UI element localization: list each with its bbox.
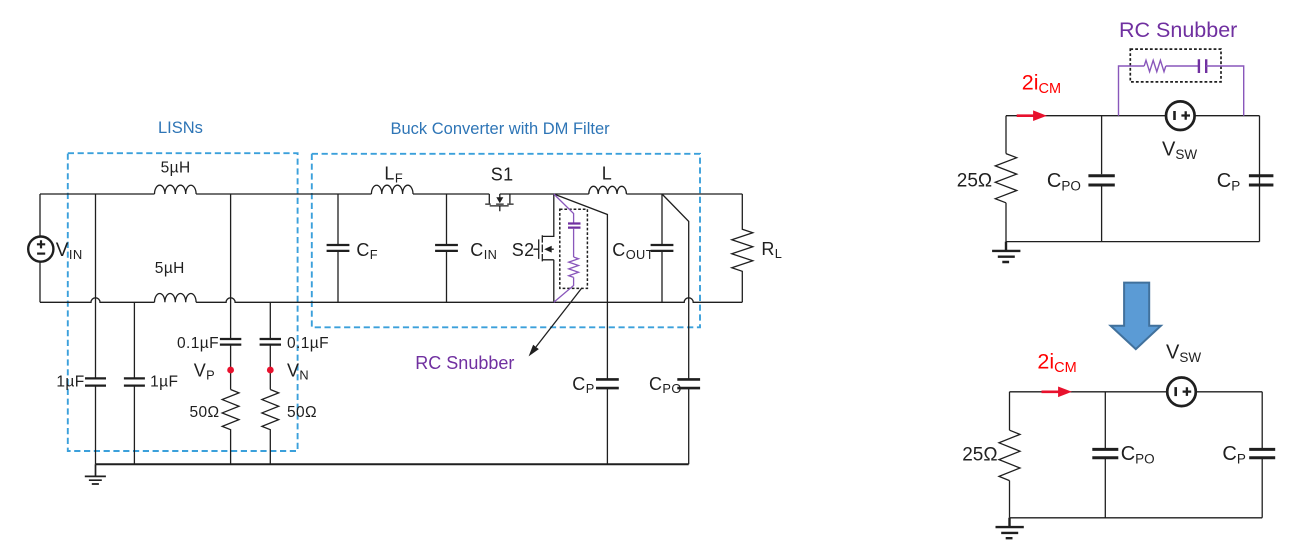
ground symbol <box>85 464 106 484</box>
capacitor snubber circuit2 <box>1199 59 1206 73</box>
resistor 25ohm circuit2 <box>995 154 1016 203</box>
wire purple left circuit2 <box>1119 66 1145 116</box>
svg-text:CIN: CIN <box>470 240 497 262</box>
svg-text:1µF: 1µF <box>56 373 84 390</box>
inductor LF <box>371 185 413 194</box>
capacitor 1uF no1 <box>85 378 106 385</box>
svg-text:VIN: VIN <box>56 240 83 262</box>
svg-text:CPO: CPO <box>1121 443 1155 467</box>
svg-text:VSW: VSW <box>1166 341 1201 365</box>
svg-text:5µH: 5µH <box>161 160 191 177</box>
transistor S2 <box>534 194 554 302</box>
wire top rail circuit3 <box>1010 391 1263 393</box>
current arrow red circuit2 <box>1017 114 1036 117</box>
source VSW circuit2 <box>1166 101 1195 130</box>
svg-text:CP: CP <box>1217 170 1240 194</box>
ground circuit2 <box>992 242 1020 262</box>
wire vertical x230 top rail to 0.1uF VP branch <box>230 194 232 339</box>
wire bottom rail right with hops <box>196 298 742 303</box>
purple snubber branch in buck <box>554 194 581 302</box>
transistor S1 <box>485 194 513 211</box>
capacitor CPO circuit2 <box>1101 116 1103 242</box>
resistor 50ohm no1 <box>222 390 239 465</box>
wire vertical x270 bottom rail to 0.1uF VN branch <box>269 302 271 338</box>
wire top rail right <box>626 193 742 195</box>
capacitor CPO circuit3 <box>1104 392 1106 518</box>
capacitor snubber purple <box>568 224 581 228</box>
wire purple mid circuit2 <box>1166 65 1199 67</box>
svg-text:1µF: 1µF <box>150 373 178 390</box>
capacitor COUT <box>661 194 663 302</box>
svg-text:2iCM: 2iCM <box>1037 350 1076 377</box>
svg-text:CP: CP <box>1222 443 1245 467</box>
svg-text:L: L <box>602 164 612 184</box>
svg-text:0.1µF: 0.1µF <box>287 335 329 352</box>
svg-text:LISNs: LISNs <box>158 119 203 137</box>
svg-text:RC Snubber: RC Snubber <box>415 353 514 373</box>
resistor 50ohm no2 <box>262 390 279 465</box>
Buck converter dashed box <box>312 154 700 327</box>
RC snubber dashed box circuit2 <box>1130 49 1221 82</box>
svg-text:25Ω: 25Ω <box>957 171 992 192</box>
LISN dashed box <box>68 153 298 451</box>
source VSW circuit3 <box>1167 378 1196 407</box>
wire CP branch diagonal from switch node <box>554 194 608 379</box>
svg-text:LF: LF <box>384 164 403 186</box>
wire top rail left <box>40 193 155 195</box>
resistor snubber purple <box>569 257 579 277</box>
svg-text:RL: RL <box>761 239 782 261</box>
wire bottom rail left with hop <box>40 298 155 303</box>
svg-text:COUT: COUT <box>612 240 654 262</box>
wire bottom rail circuit3 <box>1010 517 1263 519</box>
resistor RL <box>732 194 753 302</box>
capacitor CPO left <box>677 379 700 388</box>
current arrow red circuit3 <box>1042 390 1062 393</box>
wire left vertical circuit2 <box>1005 116 1007 154</box>
svg-text:VN: VN <box>287 361 309 383</box>
svg-text:50Ω: 50Ω <box>287 404 317 421</box>
wire top rail S1 to L <box>500 193 589 195</box>
wire purple right circuit2 <box>1206 66 1244 116</box>
svg-text:Buck Converter with DM Filter: Buck Converter with DM Filter <box>391 120 611 138</box>
capacitor CP circuit3 <box>1249 449 1275 457</box>
big blue arrow <box>1111 283 1161 350</box>
wire bottom rail circuit2 <box>1006 241 1260 243</box>
inductor L <box>589 186 627 194</box>
wire vertical x134 bottom rail to 1uF no2 <box>133 302 135 378</box>
svg-text:CP: CP <box>572 374 594 396</box>
capacitor 0.1uF no1 <box>220 339 241 345</box>
resistor 25ohm circuit3 <box>999 430 1020 480</box>
svg-text:CF: CF <box>356 240 378 262</box>
RC snubber dashed box small <box>560 209 588 288</box>
svg-text:VP: VP <box>194 361 215 383</box>
annotation arrow to snubber <box>536 288 582 347</box>
wire CPO branch diagonal from COUT node <box>662 194 689 379</box>
node VN red dot <box>267 367 274 374</box>
svg-text:S2: S2 <box>512 240 535 260</box>
source VIN <box>39 194 41 302</box>
svg-text:S1: S1 <box>491 165 514 185</box>
capacitor CIN <box>446 194 448 302</box>
ground circuit3 <box>996 518 1024 538</box>
svg-text:50Ω: 50Ω <box>190 404 220 421</box>
wire purple from switch node <box>554 194 574 223</box>
inductor 5uH top <box>155 185 197 194</box>
svg-text:VSW: VSW <box>1162 138 1197 162</box>
ground rail <box>96 463 689 465</box>
svg-text:RC Snubber: RC Snubber <box>1119 18 1237 42</box>
wire right vertical circuit2 <box>1259 116 1261 242</box>
svg-text:0.1µF: 0.1µF <box>177 335 219 352</box>
wire vertical x95 top rail to 1uF (hop over bottom rail) <box>95 194 97 378</box>
svg-text:25Ω: 25Ω <box>962 445 997 466</box>
capacitor CP left <box>596 379 619 388</box>
wire top rail circuit2 <box>1006 115 1260 117</box>
wire left vertical lower circuit3 <box>1009 481 1011 518</box>
wire purple bottom <box>554 277 574 302</box>
capacitor 0.1uF no2 <box>260 339 281 345</box>
wire purple mid <box>573 229 575 257</box>
wire left vertical circuit3 <box>1009 392 1011 430</box>
capacitor 1uF no2 <box>124 378 145 385</box>
wire top rail to S1 <box>413 193 489 195</box>
svg-text:CPO: CPO <box>1047 170 1081 194</box>
resistor snubber circuit2 <box>1144 60 1166 71</box>
inductor 5uH bottom <box>155 293 197 302</box>
svg-text:2iCM: 2iCM <box>1022 71 1061 98</box>
node VP red dot <box>227 367 234 374</box>
capacitor CF <box>337 194 339 302</box>
svg-text:5µH: 5µH <box>155 260 185 277</box>
wire left vertical lower circuit2 <box>1005 203 1007 242</box>
wire right vertical circuit3 <box>1261 392 1263 518</box>
wire top rail mid <box>196 193 371 195</box>
capacitor CP circuit2 <box>1249 176 1274 185</box>
svg-text:CPO: CPO <box>649 374 682 396</box>
